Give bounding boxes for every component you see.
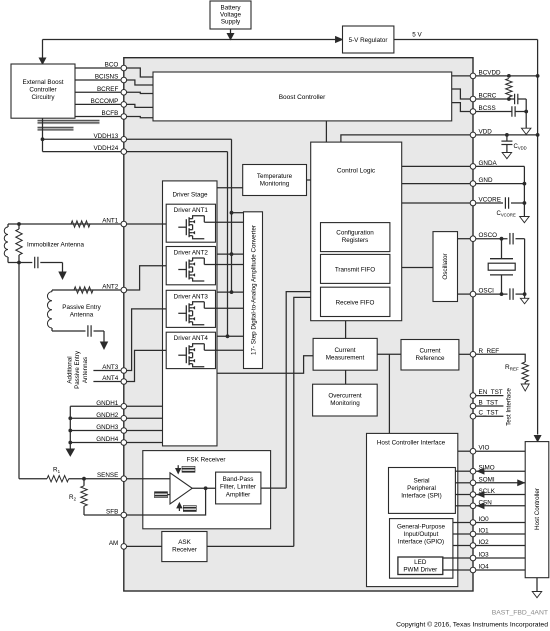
svg-text:Voltage: Voltage <box>220 12 242 19</box>
svg-text:Amplifier: Amplifier <box>226 491 251 498</box>
svg-text:BAST_FBD_4ANT: BAST_FBD_4ANT <box>492 610 548 617</box>
svg-text:ASK: ASK <box>178 539 191 546</box>
svg-text:General-Purpose: General-Purpose <box>397 524 445 531</box>
svg-text:17- Step Digital-to-Analog Amp: 17- Step Digital-to-Analog Amplitude Con… <box>251 225 258 355</box>
svg-text:Peripheral: Peripheral <box>407 485 436 492</box>
svg-text:Supply: Supply <box>221 19 241 26</box>
svg-text:Driver ANT4: Driver ANT4 <box>174 335 209 342</box>
svg-text:Host Controller Interface: Host Controller Interface <box>377 440 446 447</box>
svg-text:Registers: Registers <box>342 237 369 244</box>
svg-text:Interface (GPIO): Interface (GPIO) <box>398 539 444 546</box>
svg-text:Driver Stage: Driver Stage <box>173 192 208 199</box>
svg-text:CVDD: CVDD <box>514 144 527 151</box>
svg-text:Host Controller: Host Controller <box>534 488 541 530</box>
svg-text:Driver ANT2: Driver ANT2 <box>174 250 209 257</box>
svg-text:Immobilizer Antenna: Immobilizer Antenna <box>27 242 85 249</box>
svg-text:Receiver: Receiver <box>172 547 197 554</box>
svg-text:External Boost: External Boost <box>23 79 64 86</box>
svg-text:Control Logic: Control Logic <box>337 168 376 175</box>
svg-text:Transmit FIFO: Transmit FIFO <box>335 267 375 274</box>
svg-text:5-V Regulator: 5-V Regulator <box>349 37 388 44</box>
svg-text:Receive FIFO: Receive FIFO <box>336 300 375 307</box>
svg-text:CVCORE: CVCORE <box>497 211 516 218</box>
svg-text:Test Interface: Test Interface <box>506 388 513 426</box>
svg-text:Copyright © 2016, Texas Instru: Copyright © 2016, Texas Instruments Inco… <box>396 621 548 629</box>
svg-text:AM: AM <box>109 540 118 547</box>
svg-text:Temperature: Temperature <box>257 173 293 180</box>
svg-text:Current: Current <box>420 348 441 355</box>
svg-text:Passive Entry: Passive Entry <box>74 350 81 389</box>
svg-text:Antenna: Antenna <box>70 312 94 319</box>
svg-text:Controller: Controller <box>29 87 56 94</box>
svg-text:FSK Receiver: FSK Receiver <box>187 457 226 464</box>
svg-text:5 V: 5 V <box>412 32 422 39</box>
svg-text:Serial: Serial <box>413 478 429 485</box>
svg-text:Driver ANT1: Driver ANT1 <box>174 207 209 214</box>
svg-text:Band-Pass: Band-Pass <box>223 476 254 483</box>
svg-text:Monitoring: Monitoring <box>260 181 290 188</box>
svg-text:LED: LED <box>414 559 427 566</box>
svg-text:Additional: Additional <box>67 356 74 383</box>
svg-text:Input/Output: Input/Output <box>404 531 439 538</box>
svg-text:Oscillator: Oscillator <box>442 253 449 279</box>
svg-text:Passive Entry: Passive Entry <box>62 304 101 311</box>
svg-text:Battery: Battery <box>221 5 242 12</box>
svg-text:Measurement: Measurement <box>326 355 365 362</box>
svg-text:Configuration: Configuration <box>336 230 374 237</box>
svg-text:Driver ANT3: Driver ANT3 <box>174 293 209 300</box>
svg-text:Interface (SPI): Interface (SPI) <box>401 493 442 500</box>
svg-text:Current: Current <box>335 347 356 354</box>
svg-text:Antennas: Antennas <box>82 357 89 383</box>
svg-text:Filter, Limiter: Filter, Limiter <box>220 484 256 491</box>
svg-text:Monitoring: Monitoring <box>330 400 360 407</box>
svg-text:Overcurrent: Overcurrent <box>328 393 361 400</box>
svg-text:Boost Controller: Boost Controller <box>279 94 326 101</box>
svg-text:PWM Driver: PWM Driver <box>403 567 437 574</box>
svg-text:Circuitry: Circuitry <box>31 94 55 101</box>
svg-text:Reference: Reference <box>415 355 445 362</box>
